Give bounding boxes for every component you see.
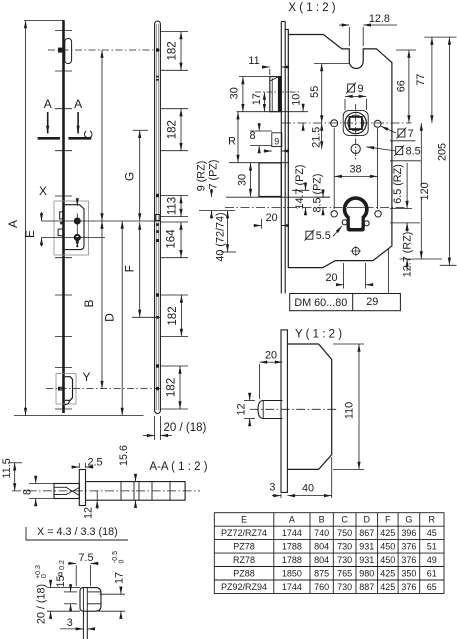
dim 8 faceplate slot	[250, 130, 272, 132]
dim 38	[333, 128, 335, 209]
dim B	[101, 221, 103, 389]
svg-text:Y ( 1 : 2 ): Y ( 1 : 2 )	[295, 329, 342, 341]
svg-text:867: 867	[359, 528, 374, 538]
svg-text:980: 980	[359, 569, 374, 579]
svg-text:887: 887	[359, 582, 374, 592]
svg-text:Y: Y	[82, 370, 90, 384]
roller pin	[258, 401, 283, 419]
side hole right	[374, 120, 381, 127]
follower dot	[74, 218, 80, 224]
svg-text:765: 765	[337, 569, 352, 579]
svg-text:49: 49	[427, 555, 437, 565]
svg-text:20 / (18): 20 / (18)	[164, 422, 207, 434]
roller center line	[250, 408, 339, 410]
svg-text:376: 376	[401, 582, 416, 592]
svg-text:740: 740	[314, 528, 329, 538]
svg-text:750: 750	[337, 528, 352, 538]
svg-text:376: 376	[401, 542, 416, 552]
svg-text:1744: 1744	[282, 582, 302, 592]
deadbolt bottom line	[226, 196, 330, 198]
svg-text:5.5: 5.5	[316, 230, 331, 242]
svg-text:65: 65	[427, 582, 437, 592]
dim 113	[180, 196, 182, 217]
svg-text:D: D	[364, 515, 371, 525]
section arrow left	[47, 112, 49, 134]
cylinder center line short	[42, 237, 106, 239]
svg-text:51: 51	[427, 542, 437, 552]
dim 40	[331, 457, 333, 498]
svg-text:7: 7	[408, 128, 414, 140]
svg-text:425: 425	[380, 569, 395, 579]
strip slot hole	[155, 215, 159, 221]
dim 110	[333, 343, 364, 345]
svg-text:3: 3	[67, 617, 73, 629]
case outline	[285, 30, 392, 268]
strip dim ticks	[160, 32, 188, 410]
svg-text:11: 11	[248, 55, 259, 67]
section center line	[12, 490, 200, 492]
cylinder dot	[74, 234, 80, 240]
strip profile	[155, 21, 161, 414]
svg-text:3: 3	[269, 482, 275, 494]
latch body section	[54, 484, 79, 499]
svg-text:PZ78: PZ78	[233, 542, 255, 552]
dim 3 stem	[60, 628, 83, 630]
svg-text:730: 730	[337, 542, 352, 552]
dia9 dim	[344, 99, 346, 110]
svg-text:2.5: 2.5	[87, 457, 102, 469]
svg-text:182: 182	[166, 378, 178, 397]
svg-text:0: 0	[119, 559, 126, 563]
cylinder profile	[343, 196, 369, 231]
svg-text:12.8: 12.8	[369, 13, 390, 25]
dim 17	[100, 593, 125, 595]
X detail box	[54, 201, 89, 255]
svg-text:1788: 1788	[282, 555, 302, 565]
svg-text:30: 30	[237, 174, 249, 186]
svg-text:164: 164	[166, 229, 178, 249]
top latch	[65, 39, 72, 64]
dim 55	[314, 63, 349, 65]
svg-text:A-A ( 1 : 2 ): A-A ( 1 : 2 )	[149, 461, 207, 473]
slot 9 box	[272, 133, 282, 147]
svg-text:7.5: 7.5	[78, 552, 93, 564]
svg-text:66: 66	[396, 80, 408, 92]
svg-text:350: 350	[401, 569, 416, 579]
dim 17	[263, 92, 265, 112]
svg-text:PZ72/RZ74: PZ72/RZ74	[221, 528, 267, 538]
svg-text:30: 30	[229, 87, 241, 99]
follower axis line	[76, 214, 78, 248]
svg-text:11.5: 11.5	[1, 458, 13, 478]
follower center long line	[42, 220, 161, 222]
svg-text:9: 9	[358, 83, 364, 95]
dim 11.5	[8, 462, 22, 464]
svg-text:113: 113	[167, 197, 179, 215]
svg-text:1850: 1850	[282, 569, 302, 579]
svg-text:8: 8	[249, 130, 255, 142]
dim 6.5 RZ	[390, 208, 412, 210]
dim 120	[420, 123, 422, 259]
dim 7.5	[75, 565, 77, 586]
svg-text:PZ88: PZ88	[233, 569, 255, 579]
svg-text:12: 12	[236, 403, 248, 415]
bottom hole	[352, 247, 359, 254]
dim 11	[269, 69, 271, 75]
dim 8	[29, 483, 54, 485]
svg-text:20: 20	[325, 272, 337, 284]
svg-text:40: 40	[302, 483, 314, 495]
svg-text:A: A	[6, 220, 20, 228]
dim 182 b	[180, 109, 182, 151]
dim 40 72/74	[227, 211, 229, 253]
latch center line	[255, 91, 299, 93]
svg-text:DM 60...80: DM 60...80	[294, 297, 347, 309]
follower center line	[282, 122, 412, 124]
svg-text:20 / (18): 20 / (18)	[36, 584, 48, 624]
dim C	[101, 50, 103, 221]
svg-text:40 (72/74): 40 (72/74)	[215, 212, 227, 261]
dim 9	[264, 150, 272, 152]
svg-text:17: 17	[114, 572, 126, 584]
side hole left	[331, 120, 338, 127]
dim A line	[25, 21, 27, 416]
diameter symbols	[305, 83, 407, 241]
dim 20/(18) profile	[47, 587, 80, 589]
Y latch center line	[46, 388, 161, 390]
svg-text:45: 45	[427, 528, 437, 538]
top tick 77/205	[424, 36, 456, 38]
svg-text:182: 182	[167, 41, 179, 60]
ext line right low	[388, 248, 390, 294]
dim 15.6	[135, 475, 137, 482]
svg-text:E: E	[241, 515, 247, 525]
cyl side holes	[331, 211, 337, 217]
dim 182 f	[179, 366, 181, 409]
svg-text:15.6: 15.6	[118, 445, 130, 466]
svg-text:C: C	[82, 130, 96, 139]
svg-text:77: 77	[415, 74, 427, 86]
svg-text:R: R	[429, 515, 436, 525]
cylinder center line	[225, 207, 408, 209]
svg-text:A: A	[289, 515, 295, 525]
svg-text:0.2: 0.2	[59, 560, 66, 570]
Y latch	[65, 377, 73, 401]
strip stem	[82, 611, 84, 639]
svg-text:14.7 (PZ): 14.7 (PZ)	[294, 164, 306, 209]
svg-text:0: 0	[41, 574, 48, 578]
svg-text:1788: 1788	[282, 542, 302, 552]
dim 14.7 PZ	[292, 189, 309, 191]
svg-text:730: 730	[337, 582, 352, 592]
svg-text:182: 182	[167, 306, 179, 325]
svg-text:E: E	[23, 230, 37, 238]
svg-text:182: 182	[167, 120, 179, 139]
dim 77	[431, 37, 433, 123]
svg-text:C: C	[341, 515, 348, 525]
svg-text:D: D	[103, 313, 117, 322]
dim D	[121, 221, 123, 416]
dia5.5 holes	[342, 220, 347, 225]
dim 9RZ 7PZ	[199, 210, 235, 212]
svg-text:10: 10	[290, 94, 302, 106]
dim 20 backset	[261, 219, 263, 229]
svg-text:205: 205	[437, 143, 449, 161]
svg-text:17: 17	[251, 93, 263, 105]
svg-text:38: 38	[349, 164, 361, 176]
svg-text:-0.5: -0.5	[112, 551, 119, 563]
svg-text:B: B	[319, 515, 325, 525]
dim 10	[302, 105, 304, 112]
dim G	[139, 130, 141, 221]
dim 12 section	[96, 491, 98, 500]
hook upstand	[79, 470, 85, 506]
dim 2.5	[78, 463, 80, 468]
svg-text:R: R	[228, 136, 236, 148]
top latch center line	[48, 49, 161, 51]
dim R	[229, 162, 288, 164]
dim 30 latch	[239, 76, 270, 78]
faceplate Y view	[281, 330, 287, 493]
svg-text:760: 760	[314, 582, 329, 592]
section plane A-A bars	[38, 137, 60, 140]
bottom tick	[14, 415, 144, 417]
dim 21.5	[321, 123, 323, 149]
DM boxes	[290, 294, 401, 311]
svg-text:450: 450	[380, 542, 395, 552]
svg-text:9 (RZ): 9 (RZ)	[196, 161, 208, 192]
Y detail box	[56, 374, 76, 405]
bottom width dim 20/(18)	[154, 416, 156, 440]
dim 66	[396, 49, 416, 51]
section arrow right	[77, 112, 79, 134]
hole dia8.5	[351, 144, 360, 153]
svg-text:804: 804	[314, 542, 329, 552]
dim 12.8 slot	[348, 27, 350, 46]
dim 182 e	[180, 295, 182, 337]
svg-text:20: 20	[265, 350, 277, 362]
svg-text:110: 110	[344, 402, 356, 419]
svg-text:G: G	[123, 172, 137, 181]
svg-text:9: 9	[274, 137, 279, 147]
strip holes	[156, 48, 159, 390]
follower v-axis	[355, 104, 357, 160]
dim 205	[448, 37, 450, 265]
svg-text:875: 875	[314, 569, 329, 579]
dim 30 deadbolt	[250, 163, 252, 197]
svg-text:8.5 (PZ): 8.5 (PZ)	[312, 174, 324, 213]
dim 12.7 RZ	[406, 223, 408, 232]
dim 182 a	[180, 32, 182, 71]
leader dia8.5	[367, 147, 397, 151]
svg-text:7 (PZ): 7 (PZ)	[208, 160, 220, 190]
faceplate X view	[280, 22, 282, 294]
dim E	[41, 212, 43, 221]
dim 20 roller	[259, 364, 261, 399]
dim 20 bottom	[343, 263, 345, 289]
strip bar section	[86, 482, 186, 501]
svg-text:8.5: 8.5	[406, 146, 421, 158]
svg-text:61: 61	[427, 569, 437, 579]
svg-text:730: 730	[337, 555, 352, 565]
svg-text:F: F	[122, 265, 136, 272]
svg-text:12: 12	[83, 507, 95, 519]
svg-text:12.7 (RZ): 12.7 (RZ)	[402, 232, 414, 278]
X view labels	[196, 2, 449, 309]
svg-text:450: 450	[380, 555, 395, 565]
dim 164	[180, 222, 182, 258]
dim 8.5 PZ	[315, 196, 330, 198]
profile body	[80, 588, 101, 612]
svg-text:X: X	[39, 184, 47, 198]
svg-text:29: 29	[366, 296, 378, 308]
dim 3	[280, 494, 282, 498]
dim 12	[244, 400, 255, 402]
svg-text:425: 425	[380, 528, 395, 538]
svg-text:396: 396	[401, 528, 416, 538]
svg-text:6.5 (RZ): 6.5 (RZ)	[392, 164, 404, 204]
svg-text:X ( 1 : 2 ): X ( 1 : 2 )	[288, 2, 335, 14]
dim F	[139, 222, 141, 317]
follower pierce arrow	[76, 202, 78, 207]
leader dia5.5	[333, 226, 342, 237]
X= underline	[26, 527, 128, 540]
svg-text:425: 425	[380, 582, 395, 592]
svg-text:931: 931	[359, 542, 374, 552]
latch X view	[270, 77, 282, 112]
lock front contour	[65, 205, 84, 250]
strip face bar	[62, 21, 65, 414]
svg-text:15: 15	[55, 575, 67, 587]
svg-text:120: 120	[419, 182, 431, 200]
svg-text:55: 55	[309, 86, 321, 98]
svg-text:A: A	[44, 97, 52, 111]
strip section ticks	[55, 31, 72, 410]
deadbolt	[259, 163, 281, 197]
dim 15 +-0.2	[64, 591, 77, 593]
svg-text:B: B	[82, 299, 96, 307]
svg-text:21.5: 21.5	[310, 127, 322, 148]
svg-text:X = 4.3 / 3.3 (18): X = 4.3 / 3.3 (18)	[37, 526, 118, 538]
svg-text:F: F	[385, 515, 391, 525]
strip left slots	[60, 212, 63, 219]
svg-text:1744: 1744	[282, 528, 302, 538]
follower X view	[343, 111, 368, 136]
leader dia7	[381, 126, 396, 133]
svg-text:376: 376	[401, 555, 416, 565]
svg-text:PZ92/RZ94: PZ92/RZ94	[221, 582, 267, 592]
svg-text:804: 804	[314, 555, 329, 565]
svg-text:A: A	[74, 97, 82, 111]
svg-text:20: 20	[266, 212, 278, 224]
roller plate	[287, 344, 331, 469]
svg-text:RZ78: RZ78	[233, 555, 255, 565]
svg-text:8: 8	[21, 489, 33, 495]
top tick	[24, 20, 65, 22]
svg-text:G: G	[405, 515, 412, 525]
svg-text:931: 931	[359, 555, 374, 565]
left view labels	[6, 97, 137, 384]
